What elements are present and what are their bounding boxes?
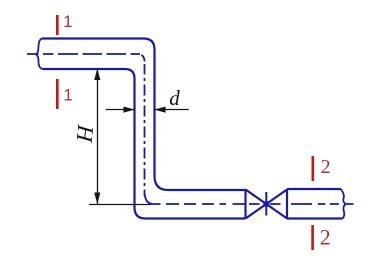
dimension H extension line (89, 204, 151, 206)
valve right flange line (286, 189, 288, 219)
centerline: lower pipe elbow arc (145, 195, 152, 204)
valve stem line (265, 192, 267, 216)
svg-text:1: 1 (63, 12, 72, 31)
valve right triangle (266, 190, 287, 219)
svg-text:1: 1 (63, 86, 72, 105)
outlet pipe top wall (287, 188, 341, 190)
svg-text:d: d (169, 86, 180, 110)
dimension H lower arrowhead (94, 193, 100, 205)
valve center dot (263, 201, 269, 207)
break line at left end of upper pipe (36, 39, 42, 70)
dimension d right line (155, 109, 189, 111)
section mark 1 upper tick (56, 15, 59, 35)
svg-text:H: H (72, 123, 99, 145)
dimension H upper arrowhead (94, 69, 100, 81)
svg-text:2: 2 (321, 156, 331, 178)
dimension H line (97, 69, 99, 205)
section mark 2 upper tick (311, 156, 314, 181)
pipe outer wall: top wall of upper pipe, right wall of vertical run, top wall of lower pipe (42, 39, 245, 191)
valve left flange line (244, 189, 246, 219)
dimension d left arrowhead (124, 107, 135, 113)
break line at right end of outlet pipe (341, 189, 346, 219)
outlet pipe bottom wall (287, 217, 343, 219)
section mark 1 lower tick (56, 79, 59, 109)
valve left triangle (246, 190, 267, 219)
dimension d right arrowhead (155, 107, 166, 113)
centerline: lower pipe axis (dash-dot) (150, 203, 354, 205)
dimension d left line (106, 109, 135, 111)
centerline: vertical run axis (dash-dot) (144, 64, 146, 196)
svg-text:2: 2 (320, 225, 331, 250)
pipe inner wall: bottom wall of upper pipe, left wall of vertical run, bottom wall of lower pipe (42, 69, 245, 219)
section mark 2 lower tick (311, 225, 314, 250)
centerline: upper pipe axis (dash-dot) (27, 54, 145, 62)
